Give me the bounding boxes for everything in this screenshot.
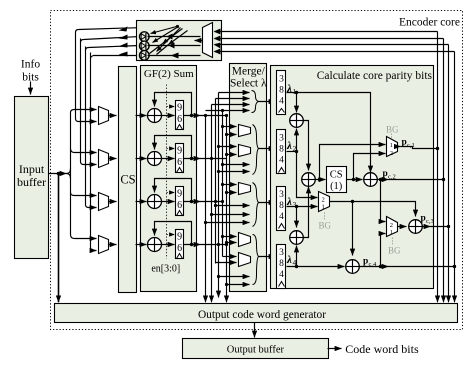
- svg-text:λ: λ: [286, 254, 292, 266]
- wire info branch to mux M4 top: [71, 235, 97, 239]
- right bus vertical V3: [448, 45, 450, 303]
- wire CS to xor G2: [136, 158, 147, 160]
- register L4: [277, 245, 286, 289]
- wire mux M2 output: [109, 158, 117, 160]
- merge G1 arrow 4: [206, 110, 250, 112]
- svg-text:GF(2) Sum: GF(2) Sum: [144, 68, 194, 80]
- svg-text:Input: Input: [19, 162, 45, 176]
- svg-text:Output code word generator: Output code word generator: [198, 309, 326, 321]
- feedback top horizontal 2: [215, 38, 444, 40]
- svg-text:λ: λ: [286, 83, 292, 95]
- wire pc4 to right bus: [389, 266, 455, 268]
- GF row 1: [136, 93, 201, 130]
- wire arrow info bits to input buffer: [30, 82, 32, 95]
- CS box: [119, 67, 137, 293]
- svg-text:1: 1: [390, 229, 393, 236]
- wire register R3 output: [184, 201, 201, 203]
- input buffer: [15, 97, 49, 259]
- wire xor D output up to xor B: [304, 187, 309, 238]
- svg-text:BG: BG: [388, 246, 401, 256]
- xor G2: [148, 152, 162, 166]
- GF row 3: [136, 179, 201, 216]
- svg-text:2: 2: [322, 197, 325, 204]
- svg-text:9: 9: [177, 189, 182, 200]
- svg-text:9: 9: [177, 146, 182, 157]
- svg-text:(1): (1): [330, 181, 343, 192]
- wire xor G3 to register: [162, 201, 175, 203]
- merge G1 arrow 1: [219, 92, 250, 94]
- wire info distribution brace: [67, 169, 71, 179]
- svg-text:6: 6: [177, 243, 182, 254]
- svg-text:Merge/: Merge/: [232, 66, 266, 78]
- xor G4: [148, 238, 162, 252]
- junction node input buffer output: [57, 172, 61, 176]
- bus vertical B3: [215, 99, 217, 264]
- dashed en arrow row2: [167, 148, 175, 150]
- svg-text:Info: Info: [21, 59, 40, 71]
- wire lambda3 output to mux BG2 input1: [287, 206, 318, 208]
- wire lambda4 up to xor D: [296, 246, 298, 267]
- merge mux 2a inputs: [223, 126, 237, 128]
- wire feedback F4 vertical to mux M4 bottom: [91, 53, 97, 251]
- bus vertical B1: [205, 116, 207, 303]
- wire shiftbox exit 2: [81, 37, 140, 43]
- wire mux BG3 output to xor E: [398, 226, 407, 228]
- merge mux 3a inputs: [223, 184, 237, 186]
- wire lambda2 up to xor A: [296, 129, 298, 152]
- svg-text:3: 3: [279, 248, 284, 258]
- arrowhead internal wire4: [171, 53, 179, 59]
- svg-text:6: 6: [177, 114, 182, 125]
- wire mux BG1 output pc1: [398, 146, 401, 148]
- register L3: [277, 187, 286, 231]
- svg-text:1: 1: [322, 204, 325, 211]
- xor G1: [148, 109, 162, 123]
- wire BG2 tap down to xor F: [352, 202, 354, 256]
- bus row horizontal 4: [201, 244, 227, 246]
- feedback top horizontal 3: [215, 44, 449, 46]
- input mux M3: [99, 193, 109, 211]
- rotator circle S1: [140, 32, 150, 42]
- svg-text:Code word bits: Code word bits: [345, 342, 419, 356]
- bus vertical B4: [218, 93, 220, 298]
- xor F: [346, 260, 360, 274]
- merge G3 brace: [253, 183, 259, 227]
- wire merge output lambda1: [259, 101, 276, 103]
- merge G2 brace: [253, 125, 259, 175]
- wire feedback loop row 2: [155, 136, 192, 159]
- wire generator to output buffer: [254, 323, 256, 338]
- svg-text:en[3:0]: en[3:0]: [151, 264, 180, 275]
- input mux M4: [99, 236, 109, 254]
- merge G2 arrow 2: [219, 171, 250, 173]
- wire xor G2 to register: [162, 158, 175, 160]
- wire lambda1 down to xor A: [296, 93, 298, 113]
- merge mux 4a: [239, 233, 251, 247]
- wire pc4 tap up to mux BG3 input1: [381, 234, 386, 267]
- arrowhead internal wire3: [169, 43, 175, 49]
- svg-text:4: 4: [279, 212, 284, 222]
- dashed en arrow row1: [167, 106, 175, 108]
- arrowhead exit 2: [119, 35, 128, 40]
- wire xor E output pc3: [423, 226, 431, 228]
- wire shiftbox internal wire4: [148, 55, 201, 57]
- arrowhead internal wire2: [167, 34, 173, 40]
- merge G3 arrow 2: [212, 214, 250, 216]
- merge mux 4a inputs: [223, 236, 237, 238]
- wire xor G4 to register: [162, 244, 175, 246]
- wire info branch to mux M2 top: [71, 149, 97, 153]
- svg-text:c,4: c,4: [369, 261, 378, 268]
- wire xor F output pc4: [360, 266, 389, 268]
- input mux M2: [99, 150, 109, 168]
- svg-text:Encoder core: Encoder core: [399, 17, 460, 29]
- merge G2 arrow 1: [223, 164, 250, 166]
- svg-text:3: 3: [279, 134, 284, 144]
- merge mux 2a: [239, 125, 251, 137]
- rotator circle S3: [140, 51, 150, 61]
- svg-text:BG: BG: [319, 221, 332, 231]
- svg-text:8: 8: [279, 201, 284, 211]
- svg-text:c,3: c,3: [426, 218, 434, 225]
- merge G4 brace: [253, 235, 259, 285]
- wire xor G1 to register: [162, 115, 175, 117]
- wire CS to xor G3: [136, 201, 147, 203]
- register R4: [176, 230, 184, 259]
- svg-text:Select λ: Select λ: [230, 78, 267, 90]
- svg-text:p: p: [383, 169, 388, 179]
- dashed en arrow row3: [167, 192, 175, 194]
- wire CS to xor G1: [136, 115, 147, 117]
- arrowhead exit 1: [119, 27, 128, 32]
- xor E: [409, 220, 423, 234]
- bus vertical B5: [222, 111, 224, 257]
- svg-text:9: 9: [177, 103, 182, 114]
- CS1 box: [327, 167, 347, 193]
- encoder core dotted border: [51, 11, 463, 330]
- xor D: [290, 231, 304, 245]
- wire merge output lambda3: [259, 202, 276, 204]
- wire shiftbox exit 3: [86, 46, 140, 51]
- wire pc1 to right bus: [401, 147, 438, 149]
- svg-text:2: 2: [390, 222, 393, 229]
- svg-text:8: 8: [279, 259, 284, 269]
- svg-text:6: 6: [177, 157, 182, 168]
- merge G4 arrow 1: [219, 276, 250, 278]
- bus row horizontal 2: [201, 158, 227, 160]
- svg-text:2: 2: [390, 150, 393, 157]
- wire feedback loop row 3: [155, 179, 192, 202]
- wire feedback loop row 4: [155, 222, 192, 245]
- right bus vertical V2: [443, 39, 445, 303]
- merge mux 3a: [239, 183, 251, 195]
- wire info branch to mux M1 top: [71, 110, 97, 113]
- mux BG1: [387, 137, 398, 157]
- input mux M1: [99, 107, 109, 125]
- wire shiftbox exit 4: [91, 56, 140, 59]
- dashed en arrow row4: [167, 234, 175, 236]
- merge mux 2b: [239, 145, 251, 157]
- wire shiftbox exit 1: [76, 27, 177, 33]
- wire mux M3 output: [109, 201, 117, 203]
- wire pc2 tap down to mux BG3 input2: [381, 180, 386, 222]
- wire pc3 to right bus: [431, 226, 449, 228]
- svg-text:CS: CS: [330, 170, 343, 181]
- mux BG3: [387, 217, 398, 237]
- wire merge output lambda2: [259, 148, 276, 150]
- wire mux M1 output: [109, 115, 117, 117]
- wire xor B tap to mux BG1 input1: [320, 145, 386, 180]
- en dashed control line: [166, 85, 168, 259]
- wire register R1 output: [184, 115, 201, 117]
- bus vertical B2: [211, 105, 213, 303]
- register L2: [277, 130, 286, 174]
- diagonal up d5: [169, 31, 188, 45]
- wire CS1 output to xor C: [347, 179, 363, 181]
- cyclic shift box: [137, 21, 222, 61]
- svg-text:8: 8: [279, 86, 284, 96]
- xor C: [364, 173, 378, 187]
- wire shiftbox internal wire2: [148, 36, 201, 38]
- wire merge output lambda4: [259, 256, 276, 258]
- merge G1 arrow 3: [212, 104, 250, 106]
- wire input buffer output: [49, 173, 67, 175]
- arrowhead exit 4: [119, 52, 128, 57]
- svg-text:9: 9: [177, 232, 182, 243]
- rotator circle S2: [140, 41, 150, 51]
- bus row horizontal 3: [201, 201, 223, 203]
- wire feedback loop row 1: [155, 93, 192, 116]
- wire register R4 output: [184, 244, 201, 246]
- GF row 2: [136, 136, 201, 173]
- svg-text:6: 6: [177, 200, 182, 211]
- wire lambda4 output: [287, 266, 345, 268]
- GF(2) Sum box: [141, 66, 197, 292]
- wire info branch to mux M3 top: [71, 193, 97, 196]
- diagonal fan d1: [151, 27, 177, 34]
- wire output buffer to code word bits: [328, 348, 342, 350]
- svg-text:Output buffer: Output buffer: [227, 345, 285, 356]
- wire input buffer down to output generator: [58, 174, 60, 303]
- wire CS1 tap to mux BG1 input2: [354, 154, 386, 180]
- svg-text:1: 1: [390, 142, 393, 149]
- wire lambda2 output: [287, 151, 297, 153]
- svg-text:buffer: buffer: [17, 175, 46, 189]
- wire info distribution vertical: [70, 113, 72, 235]
- wire lambda1 output long: [287, 93, 371, 173]
- wire feedback F1 vertical to mux M1 bottom: [76, 33, 97, 122]
- merge G1 brace: [252, 91, 259, 113]
- arrowhead exit 3: [119, 43, 128, 48]
- svg-text:Calculate core parity bits: Calculate core parity bits: [317, 70, 433, 82]
- register R3: [176, 187, 184, 216]
- merge mux 4b inputs: [223, 256, 237, 258]
- wire lambda3 down to xor D: [296, 207, 298, 228]
- merge mux 4b: [239, 253, 251, 267]
- merge G3 arrow 1: [216, 205, 250, 207]
- output buffer box: [183, 339, 329, 359]
- wire xor B output to CS1: [315, 179, 326, 181]
- svg-text:λ: λ: [286, 140, 292, 152]
- diagonal up d4: [163, 29, 183, 44]
- wire feedback F3 vertical to mux M3 bottom: [86, 47, 97, 208]
- xor B: [302, 173, 316, 187]
- merge G3 arrow 3: [206, 222, 250, 224]
- svg-text:p: p: [363, 257, 368, 267]
- right bus vertical V4: [454, 52, 456, 303]
- wire lambda2 down to mux BG2 input2: [297, 152, 318, 198]
- xor A: [290, 114, 304, 128]
- right bus vertical V1: [437, 32, 439, 303]
- svg-text:3: 3: [279, 190, 284, 200]
- merge G1 arrow 2: [216, 98, 250, 100]
- feedback top horizontal 4: [215, 51, 455, 53]
- GF row 4: [136, 222, 201, 259]
- register L1: [277, 71, 286, 115]
- merge mux 2b inputs: [219, 146, 237, 148]
- svg-text:p: p: [421, 214, 426, 224]
- wire xor A output to xor B: [304, 121, 309, 171]
- merge G4 arrow 2: [227, 284, 250, 286]
- junction shiftbox: [176, 25, 179, 28]
- bus vertical B6: [226, 116, 228, 303]
- svg-text:4: 4: [279, 97, 284, 107]
- register R1: [176, 101, 184, 130]
- svg-text:BG: BG: [386, 125, 399, 135]
- Calculate core parity bits box: [271, 66, 434, 289]
- wire mux BG2 output to xor E elbow: [330, 202, 416, 217]
- wire CS to xor G4: [136, 244, 147, 246]
- svg-text:4: 4: [279, 270, 284, 280]
- mux BG2: [319, 192, 330, 212]
- register R2: [176, 144, 184, 173]
- wire register R2 output: [184, 158, 201, 160]
- diagonal fan d2: [153, 27, 179, 43]
- Merge Select box: [230, 64, 267, 292]
- svg-text:CS: CS: [120, 173, 135, 187]
- wire feedback F2 vertical to mux M2 bottom: [81, 39, 97, 165]
- svg-text:3: 3: [279, 75, 284, 85]
- wire mux T1 output: [195, 40, 203, 42]
- feedback top horizontal 1: [215, 31, 438, 33]
- xor G3: [148, 195, 162, 209]
- diagonal fan d3: [157, 28, 181, 52]
- svg-text:4: 4: [279, 156, 284, 166]
- wire xor C output pc2: [378, 179, 389, 181]
- svg-text:8: 8: [279, 145, 284, 155]
- wire pc2 to right bus: [389, 179, 444, 181]
- wire mux M4 output: [109, 244, 117, 246]
- output code word generator bar: [55, 304, 458, 323]
- wire shiftbox internal wire3: [148, 45, 201, 47]
- bus row horizontal 1: [201, 115, 227, 117]
- mux T1 (top selector): [203, 23, 213, 58]
